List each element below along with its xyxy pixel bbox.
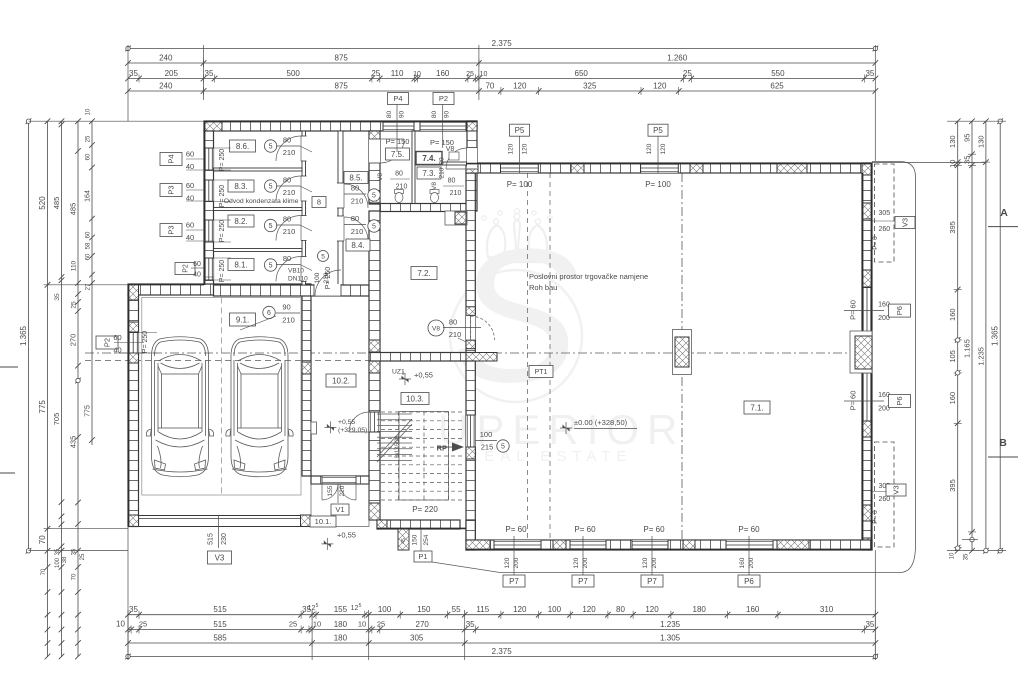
svg-text:60: 60 [113, 333, 121, 342]
svg-text:8.5.: 8.5. [349, 173, 362, 182]
svg-text:2.375: 2.375 [492, 647, 513, 656]
column PT1 hatch [675, 337, 689, 367]
svg-text:8.4.: 8.4. [351, 241, 364, 250]
svg-text:P= 100: P= 100 [507, 180, 533, 189]
pier SW commercial [466, 540, 490, 550]
svg-text:Roh bau: Roh bau [529, 283, 557, 292]
svg-text:25: 25 [371, 69, 380, 78]
svg-text:DN110: DN110 [288, 276, 308, 283]
pier above garage window [128, 322, 139, 332]
svg-text:180: 180 [334, 634, 348, 643]
door swing into 10.2 [349, 412, 369, 432]
svg-text:80: 80 [386, 111, 393, 119]
car 2 in garage [226, 337, 293, 477]
svg-text:35: 35 [129, 69, 138, 78]
garage north wall [128, 284, 310, 295]
garage east wall [302, 284, 311, 476]
svg-text:210: 210 [283, 148, 296, 157]
svg-text:P= 250: P= 250 [325, 267, 332, 289]
svg-text:80: 80 [283, 215, 291, 224]
left row 164 [91, 121, 93, 445]
svg-text:2.375: 2.375 [492, 39, 513, 48]
svg-text:55: 55 [452, 605, 461, 614]
svg-text:160: 160 [948, 392, 957, 405]
svg-text:(+329,05): (+329,05) [338, 427, 367, 434]
svg-text:120: 120 [660, 143, 667, 154]
svg-text:310: 310 [820, 605, 834, 614]
svg-text:5: 5 [372, 193, 376, 200]
window P2 west wall [204, 258, 214, 280]
svg-text:35: 35 [865, 620, 874, 629]
svg-text:P3: P3 [167, 185, 176, 194]
pier [369, 131, 380, 143]
staircase lower flight treads [377, 414, 412, 460]
svg-text:210: 210 [351, 197, 364, 206]
grid axis line vertical [540, 172, 682, 174]
step wall between stair block and commercial south wall [466, 520, 475, 550]
svg-text:7.2.: 7.2. [417, 269, 430, 278]
stair walk line with RP arrow [437, 446, 452, 448]
svg-text:220: 220 [339, 485, 346, 496]
garage door left pier [128, 515, 139, 527]
bottom row 2 [128, 629, 875, 631]
svg-text:P6: P6 [895, 306, 904, 315]
svg-text:10: 10 [358, 620, 366, 629]
svg-text:5: 5 [269, 223, 273, 230]
pier in north wall [571, 163, 584, 173]
east wall of commercial space [862, 163, 872, 550]
svg-text:210: 210 [283, 188, 296, 197]
svg-text:25: 25 [377, 620, 385, 629]
svg-text:P5: P5 [515, 126, 525, 135]
svg-text:160: 160 [746, 605, 760, 614]
window P4 west wall [204, 148, 214, 170]
svg-text:P7: P7 [509, 577, 519, 586]
svg-text:240: 240 [159, 54, 173, 63]
label P3 west [160, 184, 182, 197]
window P6 lower east wall [862, 373, 872, 421]
north wall of bedroom block [204, 121, 477, 131]
svg-text:100: 100 [378, 605, 392, 614]
label P6 east [844, 310, 884, 312]
svg-text:200: 200 [748, 557, 755, 568]
door opening room 8.x #4 [301, 257, 307, 282]
door swing into room 8.x #1 [276, 136, 301, 161]
svg-text:90: 90 [399, 111, 406, 119]
window P7 first [494, 540, 541, 550]
svg-text:515: 515 [213, 605, 227, 614]
pier NW commercial [466, 163, 478, 173]
svg-text:80: 80 [616, 605, 625, 614]
svg-text:875: 875 [335, 82, 349, 91]
pier in south wall a [553, 540, 566, 550]
toilet room 7.3 [430, 190, 439, 194]
svg-text:8: 8 [317, 198, 321, 207]
svg-text:P2: P2 [103, 338, 112, 347]
pier [369, 361, 380, 373]
svg-text:80: 80 [283, 254, 291, 263]
north wall of commercial space [466, 163, 872, 173]
label P5 first [510, 124, 530, 136]
svg-text:10.2.: 10.2. [332, 376, 350, 385]
svg-text:155: 155 [327, 485, 334, 496]
right row detail [957, 121, 959, 551]
pier in south wall b [683, 540, 695, 550]
garage door right pier [301, 515, 312, 527]
svg-text:P4: P4 [167, 154, 176, 163]
svg-text:V8: V8 [431, 182, 438, 190]
window P2 garage west wall [128, 333, 139, 354]
partition 8.3/8.2 [214, 208, 303, 211]
svg-text:P= 150: P= 150 [386, 137, 410, 146]
svg-text:100: 100 [480, 430, 493, 439]
svg-text:70: 70 [72, 573, 78, 580]
label P4 west [160, 153, 182, 166]
wall south of room 7.2 [369, 353, 466, 362]
bottom row detail [128, 614, 875, 616]
pier in north wall 3 [777, 163, 807, 173]
column at east wall [850, 331, 872, 373]
top row total 2.375 [128, 48, 875, 50]
svg-text:5: 5 [269, 144, 273, 151]
pier east wall 4 [862, 505, 872, 521]
svg-text:VB10: VB10 [288, 268, 304, 275]
svg-text:8.6.: 8.6. [236, 142, 249, 151]
svg-text:80: 80 [283, 176, 291, 185]
svg-text:7.5.: 7.5. [391, 150, 404, 159]
svg-text:150: 150 [412, 534, 419, 545]
svg-text:58: 58 [86, 242, 92, 249]
window P5 120 second [641, 163, 679, 173]
door opening room 7.3 east wall [467, 148, 477, 170]
svg-text:260: 260 [878, 496, 890, 503]
svg-text:12: 12 [351, 605, 359, 612]
svg-text:10: 10 [948, 160, 957, 168]
svg-text:38: 38 [62, 556, 68, 563]
svg-text:200: 200 [582, 557, 589, 568]
rooms east partition wall (8.x to corridor) [302, 131, 306, 285]
label P6 bottom [748, 536, 750, 575]
svg-text:P= 60: P= 60 [849, 391, 858, 411]
svg-text:P= 0: P= 0 [872, 510, 879, 524]
svg-text:210: 210 [450, 190, 462, 197]
svg-text:P= 60: P= 60 [574, 525, 596, 534]
section tick left edge upper [0, 366, 18, 368]
column PT1 outline [673, 330, 692, 375]
shaft beside room 7.3 [445, 211, 467, 225]
stair break line [377, 424, 412, 462]
svg-text:12: 12 [308, 605, 316, 612]
svg-text:35: 35 [964, 553, 970, 560]
svg-text:1.305: 1.305 [660, 634, 681, 643]
svg-text:1.165: 1.165 [963, 339, 972, 358]
svg-text:120: 120 [645, 605, 659, 614]
svg-text:Odvod kondenzata klime: Odvod kondenzata klime [224, 198, 299, 205]
svg-text:P4: P4 [393, 94, 402, 103]
svg-text:155: 155 [334, 605, 348, 614]
wall west of rooms 7.5 (corridor strip) [369, 131, 380, 204]
svg-text:160: 160 [436, 69, 450, 78]
svg-text:215: 215 [481, 443, 494, 452]
plot boundary rounded line [432, 162, 916, 573]
door swing room 7.5 [380, 139, 404, 163]
door opening room 8.x #3 [301, 216, 307, 241]
pier below door [466, 447, 475, 459]
window P6 upper east wall [862, 288, 872, 337]
svg-text:27: 27 [86, 283, 92, 290]
svg-text:90: 90 [444, 111, 451, 119]
wall between 7.x rooms and room 7.2 [380, 204, 467, 212]
svg-text:7.3.: 7.3. [422, 169, 435, 178]
right row 3 [985, 121, 987, 551]
pier below door V8 [466, 340, 475, 349]
west wall of commercial space upper [466, 173, 475, 353]
svg-text:130: 130 [948, 135, 957, 148]
svg-text:1.365: 1.365 [991, 325, 1000, 346]
pier below 7.5 door [369, 191, 380, 203]
svg-text:210: 210 [439, 167, 446, 178]
garage west wall [128, 295, 139, 526]
svg-text:60: 60 [186, 150, 194, 159]
top row 4 [128, 90, 875, 92]
svg-text:35: 35 [54, 293, 61, 301]
svg-text:80: 80 [439, 157, 446, 165]
svg-text:+0,55: +0,55 [338, 419, 355, 426]
bottom row 3 [128, 642, 875, 644]
svg-text:5: 5 [359, 603, 362, 609]
left row 520/775/70 [47, 121, 49, 551]
window P3 west wall lower [204, 220, 214, 242]
pier garage east wall [302, 362, 311, 374]
label P2 garage west [96, 336, 118, 349]
door swing into room 8.x #4 [276, 257, 301, 282]
svg-text:35: 35 [129, 605, 138, 614]
pier at PT1 grid line [466, 353, 497, 362]
terrace door V3 bottom dashed [875, 442, 895, 547]
svg-text:P7: P7 [578, 577, 588, 586]
svg-text:P= 60: P= 60 [738, 525, 760, 534]
svg-text:60: 60 [186, 221, 194, 230]
partition 7.5/7.4 vertical [412, 131, 415, 204]
terrace door V3 top dashed [875, 164, 895, 262]
left total 1.365 [28, 121, 30, 551]
svg-text:80: 80 [395, 171, 403, 178]
window P3 west wall [204, 180, 214, 202]
svg-text:520: 520 [38, 196, 47, 210]
svg-text:90: 90 [282, 303, 290, 312]
svg-text:V8: V8 [446, 146, 455, 153]
left chain bottom extensions [47, 551, 49, 657]
svg-text:500: 500 [287, 69, 301, 78]
svg-text:254: 254 [423, 534, 430, 545]
svg-text:PT1: PT1 [535, 369, 548, 376]
svg-text:10: 10 [480, 71, 488, 78]
svg-text:585: 585 [213, 634, 227, 643]
right total [999, 121, 1001, 551]
pier [369, 503, 380, 520]
svg-text:±0.00 (+328,50): ±0.00 (+328,50) [574, 418, 628, 427]
svg-text:P2: P2 [439, 94, 448, 103]
svg-text:305: 305 [410, 634, 424, 643]
partition 8.6/8.3 [214, 168, 303, 171]
garage door V3 label [218, 516, 220, 548]
joint line 2 [549, 173, 551, 540]
svg-text:9.1.: 9.1. [236, 315, 249, 324]
svg-text:A: A [1000, 207, 1008, 219]
pier above door V8 [466, 307, 475, 316]
svg-text:8.2.: 8.2. [234, 217, 247, 226]
wall under rooms 8.1-8.4 [214, 285, 370, 296]
svg-text:100: 100 [548, 605, 562, 614]
svg-text:120: 120 [642, 557, 649, 568]
svg-text:1.235: 1.235 [660, 620, 681, 629]
NE corner pier [862, 163, 872, 175]
west wall of room 7.2 [369, 211, 380, 353]
svg-text:60: 60 [186, 181, 194, 190]
svg-text:8.1.: 8.1. [234, 260, 247, 269]
svg-text:515: 515 [208, 533, 215, 545]
partition 8.2/8.1 [214, 249, 303, 252]
svg-text:60: 60 [86, 153, 92, 160]
svg-text:P= 250: P= 250 [219, 185, 226, 207]
svg-text:V1: V1 [335, 505, 344, 514]
svg-text:25: 25 [86, 135, 92, 142]
svg-text:80: 80 [351, 214, 359, 223]
south wall of commercial space [466, 540, 872, 550]
corridor east partition wall [338, 131, 343, 285]
svg-text:395: 395 [948, 479, 957, 492]
svg-text:80: 80 [431, 111, 438, 119]
svg-text:110: 110 [71, 260, 78, 271]
grid axis vertical [681, 173, 683, 540]
window P2 160 in north wall [420, 121, 466, 131]
svg-text:25: 25 [466, 71, 474, 78]
svg-text:40: 40 [186, 233, 194, 242]
pier east wall 3 [862, 421, 872, 437]
svg-text:120: 120 [513, 82, 527, 91]
svg-text:P1: P1 [418, 552, 427, 561]
door swing garage [315, 270, 341, 296]
svg-text:95: 95 [963, 134, 972, 142]
door opening room 8.x #2 [301, 176, 307, 201]
svg-text:P= 100: P= 100 [645, 180, 671, 189]
NW corner pier [204, 121, 222, 131]
door V1 leaf arcs [322, 484, 338, 500]
svg-text:10: 10 [313, 620, 321, 629]
joint line 1 [527, 173, 529, 540]
svg-text:+0,55: +0,55 [337, 531, 356, 540]
svg-text:P3: P3 [167, 225, 176, 234]
partition 7.4/7.3 horizontal [415, 162, 467, 165]
svg-text:+0,55: +0,55 [414, 371, 433, 380]
svg-text:40: 40 [186, 162, 194, 171]
svg-text:100: 100 [55, 557, 61, 568]
porch 10.1 slab outline [311, 484, 369, 527]
svg-text:25: 25 [80, 553, 86, 560]
svg-text:775: 775 [38, 400, 47, 414]
pier east wall 2 [862, 270, 872, 287]
label P5 second [648, 124, 668, 136]
svg-text:1.260: 1.260 [667, 54, 688, 63]
door V8 swing dashed [471, 316, 495, 340]
svg-text:120: 120 [508, 143, 515, 154]
svg-text:P= 150: P= 150 [430, 138, 454, 147]
svg-text:P= 250: P= 250 [219, 220, 226, 242]
svg-text:25: 25 [139, 620, 147, 629]
svg-text:70: 70 [38, 535, 47, 544]
svg-text:60: 60 [193, 261, 201, 268]
svg-text:270: 270 [416, 620, 430, 629]
bottom row total [128, 656, 875, 658]
column east hatch [855, 336, 872, 369]
svg-text:240: 240 [159, 82, 173, 91]
svg-text:80: 80 [283, 136, 291, 145]
svg-text:P6: P6 [895, 396, 904, 405]
svg-text:5: 5 [316, 603, 319, 609]
door opening room 8.x #1 [301, 136, 307, 161]
svg-text:115: 115 [476, 605, 489, 614]
label P7 bottom [513, 536, 515, 575]
svg-text:105: 105 [948, 350, 957, 363]
pier [369, 340, 380, 352]
washbasin room 7.4 [449, 152, 459, 160]
svg-text:9x17,5/28: 9x17,5/28 [395, 436, 401, 458]
svg-text:P= 60: P= 60 [849, 300, 858, 320]
window tie lines [214, 147, 232, 149]
svg-text:395: 395 [948, 221, 957, 234]
grid axis line horizontal [85, 352, 872, 354]
door swing into room 8.x #2 [276, 176, 301, 201]
svg-text:260: 260 [878, 226, 890, 233]
svg-text:60: 60 [86, 253, 92, 260]
svg-text:35: 35 [865, 69, 874, 78]
door swing into room 8.x #3 [276, 216, 301, 241]
svg-text:10: 10 [86, 108, 92, 115]
svg-text:705: 705 [52, 413, 61, 426]
shaft hatch [455, 212, 466, 224]
svg-text:120: 120 [573, 557, 580, 568]
svg-text:110: 110 [391, 69, 404, 78]
door V1 leaf in porch wall [322, 476, 356, 484]
svg-text:210: 210 [449, 330, 462, 339]
label P3 west lower [160, 224, 182, 237]
top row detail [128, 78, 875, 80]
outer edge highlights [204, 121, 477, 123]
door opening corridor [337, 216, 344, 241]
parking divider [220, 298, 222, 496]
svg-text:10: 10 [950, 552, 956, 559]
label P6 east [844, 400, 884, 402]
svg-text:V3: V3 [892, 485, 901, 494]
label P7 bottom [651, 536, 653, 575]
pier below garage window [128, 353, 139, 363]
svg-text:180: 180 [693, 605, 707, 614]
niche on garage east wall [311, 422, 317, 434]
svg-text:775: 775 [85, 405, 92, 417]
svg-text:150: 150 [417, 605, 431, 614]
svg-text:P= 250: P= 250 [142, 331, 149, 353]
svg-text:160: 160 [739, 557, 746, 568]
pier [377, 520, 387, 529]
west wall of commercial space lower [466, 361, 475, 540]
window P7 third [632, 540, 668, 550]
garage NW corner pier [128, 284, 139, 300]
svg-text:270: 270 [69, 334, 78, 347]
svg-text:200: 200 [513, 557, 520, 568]
svg-text:210: 210 [351, 227, 364, 236]
svg-text:120: 120 [582, 605, 596, 614]
svg-text:V3: V3 [215, 553, 225, 562]
